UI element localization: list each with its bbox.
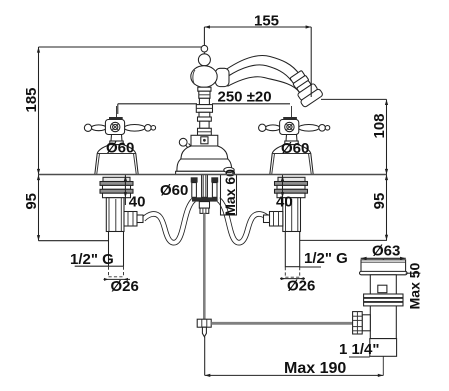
dimension 185 / 95 left xyxy=(23,47,204,241)
bell xyxy=(95,145,138,175)
svg-text:95: 95 xyxy=(23,193,40,210)
svg-text:250 ±20: 250 ±20 xyxy=(218,89,272,106)
threaded stack xyxy=(103,177,130,181)
tail xyxy=(370,339,397,357)
pop-up lever xyxy=(185,145,191,153)
body ball xyxy=(191,66,217,88)
svg-text:Ø60: Ø60 xyxy=(281,140,309,157)
clamp plate xyxy=(192,197,218,201)
knurl nut xyxy=(362,315,370,331)
1 1/4" xyxy=(349,356,370,358)
dashed hidden xyxy=(108,267,110,277)
body xyxy=(106,198,124,232)
side oval xyxy=(224,167,234,172)
pin below block xyxy=(202,327,206,337)
40 left dimension xyxy=(124,175,146,211)
pop-up rod vertical xyxy=(203,213,206,320)
dimension 108 / 95 right xyxy=(299,99,388,240)
svg-text:Ø26: Ø26 xyxy=(111,278,139,295)
svg-text:1/2" G: 1/2" G xyxy=(70,251,114,268)
centerline xyxy=(203,45,205,213)
Max 50 xyxy=(406,272,421,274)
hose tee xyxy=(124,212,137,227)
svg-text:40: 40 xyxy=(129,194,146,211)
svg-text:Ø60: Ø60 xyxy=(160,182,188,199)
washers xyxy=(364,294,403,298)
flange xyxy=(361,260,406,273)
svg-text:Max 50: Max 50 xyxy=(406,262,422,309)
block + nut xyxy=(199,202,209,209)
hoses xyxy=(143,200,269,243)
svg-text:95: 95 xyxy=(371,193,388,210)
top balls xyxy=(201,45,208,52)
center tube xyxy=(202,175,208,198)
shank xyxy=(109,232,124,267)
1/2" G right label xyxy=(300,250,348,267)
250 +-20 reference line xyxy=(118,89,290,115)
Max 190 dimension xyxy=(205,337,384,377)
svg-text:1/2" G: 1/2" G xyxy=(304,250,348,267)
deck / countertop line xyxy=(39,174,387,176)
right handle centerline stub xyxy=(291,106,293,117)
svg-text:185: 185 xyxy=(23,87,40,112)
spray head xyxy=(286,68,323,108)
svg-text:1 1/4": 1 1/4" xyxy=(339,341,379,358)
spout arm 3 curves xyxy=(226,56,300,75)
155 right extension over head xyxy=(310,27,312,97)
right arm xyxy=(124,125,145,132)
40 right dimension xyxy=(276,175,293,211)
base plate xyxy=(176,171,233,174)
Max 60 box xyxy=(221,169,238,216)
svg-text:40: 40 xyxy=(276,194,293,211)
studs xyxy=(191,177,198,182)
escutcheon xyxy=(191,135,218,146)
left arm xyxy=(91,125,106,131)
horizontal rod xyxy=(211,322,353,325)
Ø63 dim xyxy=(361,257,406,259)
left handle centerline stub xyxy=(116,106,118,117)
svg-text:Max 60: Max 60 xyxy=(222,169,238,216)
bell tier 1 xyxy=(181,146,228,159)
bell tier 2 xyxy=(177,159,232,171)
neck xyxy=(111,135,122,142)
knuckle xyxy=(216,68,230,86)
svg-text:Max 190: Max 190 xyxy=(284,360,346,377)
svg-text:Ø63: Ø63 xyxy=(372,243,400,260)
svg-text:155: 155 xyxy=(254,13,279,30)
column rings xyxy=(198,87,211,91)
connector block xyxy=(197,319,211,327)
window xyxy=(378,285,387,293)
hub xyxy=(105,120,124,135)
Ø26 right dimension xyxy=(280,277,315,294)
svg-text:108: 108 xyxy=(371,113,388,138)
dimension 155 top xyxy=(204,13,311,46)
Ø26 left dimension xyxy=(104,278,139,295)
1/2" G left label xyxy=(70,251,114,268)
body xyxy=(370,275,396,339)
svg-text:Ø26: Ø26 xyxy=(287,278,315,295)
svg-text:Ø60: Ø60 xyxy=(106,140,134,157)
